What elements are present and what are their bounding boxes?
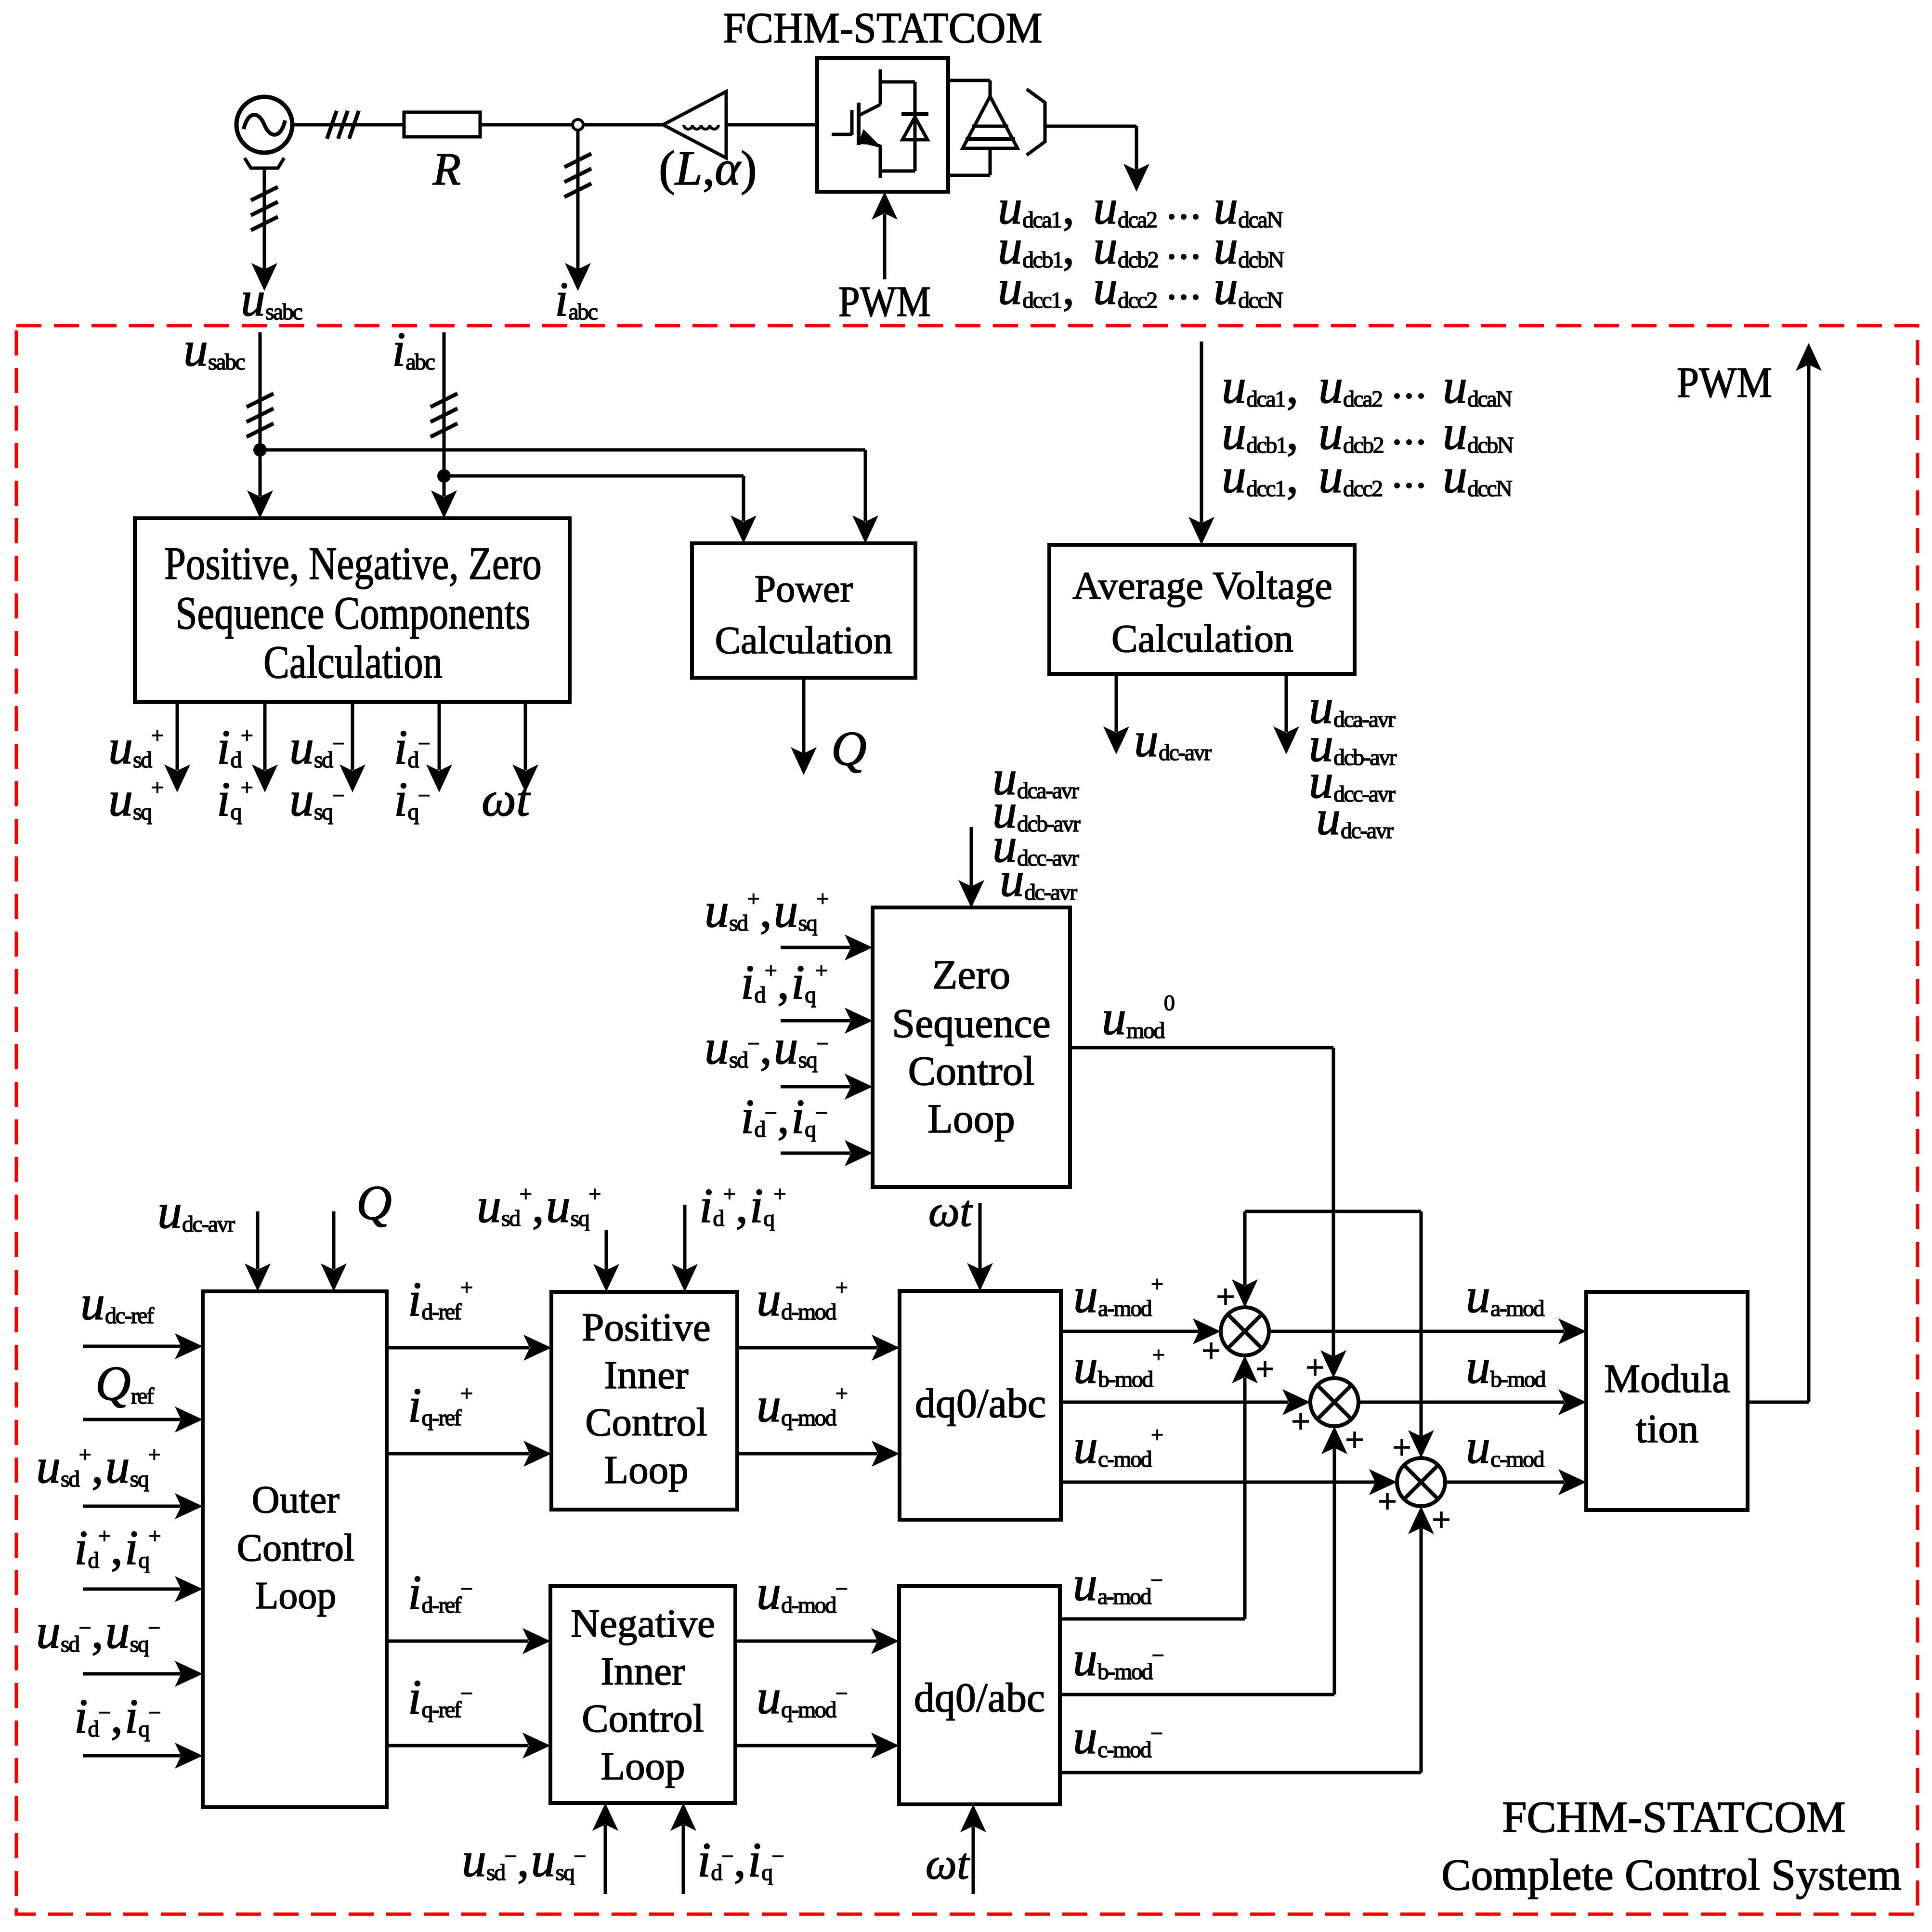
svg-text:PWM: PWM	[1677, 359, 1772, 407]
svg-text:Calculation: Calculation	[263, 637, 443, 688]
svg-text:Power: Power	[755, 568, 853, 610]
svg-text:FCHM-STATCOM: FCHM-STATCOM	[1502, 1792, 1845, 1841]
svg-text:,: ,	[1286, 449, 1299, 503]
svg-text:Outer: Outer	[252, 1479, 339, 1521]
svg-text:Control: Control	[908, 1048, 1035, 1094]
svg-text:Positive: Positive	[582, 1305, 710, 1349]
svg-text:Loop: Loop	[927, 1095, 1015, 1142]
svg-text:Loop: Loop	[600, 1744, 685, 1788]
svg-text:Negative: Negative	[571, 1601, 715, 1645]
svg-text:dq0/abc: dq0/abc	[914, 1674, 1045, 1721]
svg-text:dq0/abc: dq0/abc	[915, 1380, 1046, 1426]
svg-text:R: R	[432, 144, 461, 195]
svg-text:Calculation: Calculation	[715, 619, 893, 662]
svg-text:Loop: Loop	[604, 1447, 688, 1492]
svg-text:Control: Control	[585, 1400, 707, 1444]
svg-text:Average Voltage: Average Voltage	[1072, 564, 1332, 607]
svg-text:Control: Control	[582, 1696, 704, 1740]
svg-text:Q: Q	[831, 722, 867, 776]
svg-text:Sequence Components: Sequence Components	[176, 588, 531, 639]
svg-text:Control: Control	[237, 1527, 354, 1569]
svg-text:ωt: ωt	[482, 772, 531, 827]
svg-text:Calculation: Calculation	[1111, 617, 1293, 660]
svg-text:Complete Control System: Complete Control System	[1441, 1850, 1902, 1899]
svg-text:FCHM-STATCOM: FCHM-STATCOM	[723, 4, 1043, 52]
svg-text:Sequence: Sequence	[892, 1000, 1051, 1046]
svg-text:tion: tion	[1636, 1406, 1699, 1451]
svg-text:Inner: Inner	[604, 1353, 688, 1397]
svg-text:PWM: PWM	[838, 278, 931, 326]
svg-text:ωt: ωt	[926, 1839, 970, 1888]
svg-text:Zero: Zero	[932, 951, 1010, 998]
svg-text:ωt: ωt	[928, 1186, 973, 1235]
svg-text:Inner: Inner	[600, 1649, 685, 1693]
svg-text:Modula: Modula	[1604, 1356, 1730, 1401]
svg-text:Positive, Negative, Zero: Positive, Negative, Zero	[164, 539, 542, 590]
svg-text:(L,α): (L,α)	[659, 141, 757, 196]
svg-text:Q: Q	[356, 1176, 392, 1230]
svg-text:Loop: Loop	[255, 1575, 337, 1617]
svg-text:,: ,	[1062, 261, 1075, 315]
